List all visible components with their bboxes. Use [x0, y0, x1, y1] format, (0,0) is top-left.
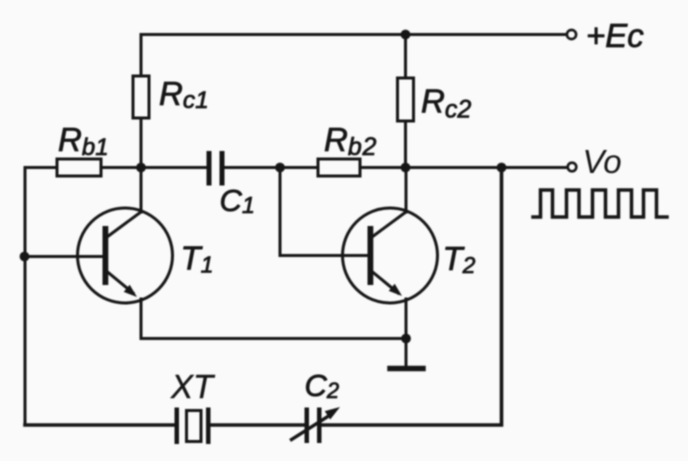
- junction node T1 base / feedback: [20, 252, 30, 262]
- resistor Rb2: [318, 159, 360, 176]
- svg-text:+Ec: +Ec: [586, 17, 644, 54]
- C2 left plate: [305, 408, 310, 444]
- svg-text:T2: T2: [443, 240, 476, 278]
- wire bottom rail XT to left branch: [25, 423, 175, 427]
- wire T2 emitter lead: [405, 299, 408, 339]
- terminal Vo: [568, 163, 577, 172]
- junction node +Ec rail / Rc2: [401, 30, 411, 40]
- svg-text:Rb1: Rb1: [58, 121, 109, 161]
- wire T1 base lead: [25, 255, 103, 258]
- resistor Rc1: [133, 76, 149, 118]
- wire Rc1 top lead: [140, 35, 143, 77]
- wire Rc1 bottom lead: [140, 118, 143, 169]
- wire Rc2 top lead: [404, 35, 407, 79]
- wire T2 base branch: [280, 168, 368, 256]
- C1 left plate: [207, 151, 212, 186]
- svg-text:Rb2: Rb2: [324, 121, 377, 161]
- transistor T1: [78, 208, 173, 303]
- wire left feedback branch (Rb1 to bottom rail): [25, 168, 57, 426]
- capacitor C2 (trimmer): [292, 407, 341, 443]
- T1 base bar: [103, 226, 109, 285]
- T2 envelope circle: [343, 208, 438, 303]
- capacitor C1: [207, 151, 225, 186]
- wire T2 collector lead: [405, 168, 408, 213]
- wire C1 right lead: [225, 166, 281, 169]
- resistor Rc2: [398, 78, 414, 121]
- wire T1 collector lead: [140, 168, 143, 213]
- T1 emitter stroke: [107, 272, 133, 294]
- ground: [390, 366, 423, 372]
- wire top supply rail: [141, 33, 567, 36]
- XT left electrode: [175, 408, 180, 445]
- T2 collector stroke: [372, 212, 407, 238]
- output square-wave symbol: [533, 190, 667, 217]
- wire bottom rail C2 to XT: [211, 423, 307, 427]
- T1 emitter arrowhead: [124, 285, 137, 297]
- wire node C to Rb2: [280, 166, 318, 169]
- svg-text:T1: T1: [181, 240, 214, 278]
- T1 envelope circle: [78, 208, 173, 303]
- junction node emitter rail / ground: [401, 334, 411, 344]
- wire Rb2 right lead to node D: [360, 166, 406, 169]
- T2 emitter arrowhead: [389, 284, 402, 296]
- svg-text:Rc2: Rc2: [421, 83, 471, 124]
- wire T1 emitter to common emitter rail: [141, 299, 406, 339]
- svg-text:Vo: Vo: [583, 143, 622, 180]
- transistor T2: [343, 208, 438, 303]
- crystal XT: [175, 408, 211, 445]
- svg-text:Rc1: Rc1: [159, 75, 209, 114]
- C1 right plate: [220, 151, 225, 186]
- resistor Rb1: [57, 159, 101, 176]
- T2 base bar: [368, 226, 374, 285]
- C2 adjustment arrow shaft: [292, 415, 332, 440]
- T1 collector stroke: [107, 212, 142, 238]
- wire right feedback branch: [322, 168, 502, 426]
- wire node D to output: [406, 166, 568, 169]
- wire Rb1 right lead to node B1: [101, 166, 141, 169]
- junction node output / feedback: [497, 163, 507, 173]
- wire node B1 to C1: [141, 166, 207, 169]
- junction node C (C1/Rb2/T2 base): [275, 163, 285, 173]
- svg-text:C1: C1: [220, 183, 255, 218]
- svg-text:XT: XT: [170, 368, 216, 405]
- wire Rc2 bottom lead: [404, 121, 407, 169]
- junction node B1 (Rc1/Rb1/C1/T1 collector): [136, 163, 146, 173]
- wire ground lead: [405, 339, 408, 367]
- svg-text:C2: C2: [305, 368, 340, 403]
- XT quartz body: [187, 411, 202, 442]
- XT right electrode: [206, 408, 211, 445]
- terminal +Ec: [567, 30, 576, 39]
- C2 adjustment arrowhead: [325, 407, 340, 420]
- junction node D (Rc2/T2 collector/output): [401, 163, 411, 173]
- T2 emitter stroke: [372, 272, 398, 294]
- C2 right plate: [317, 408, 322, 444]
